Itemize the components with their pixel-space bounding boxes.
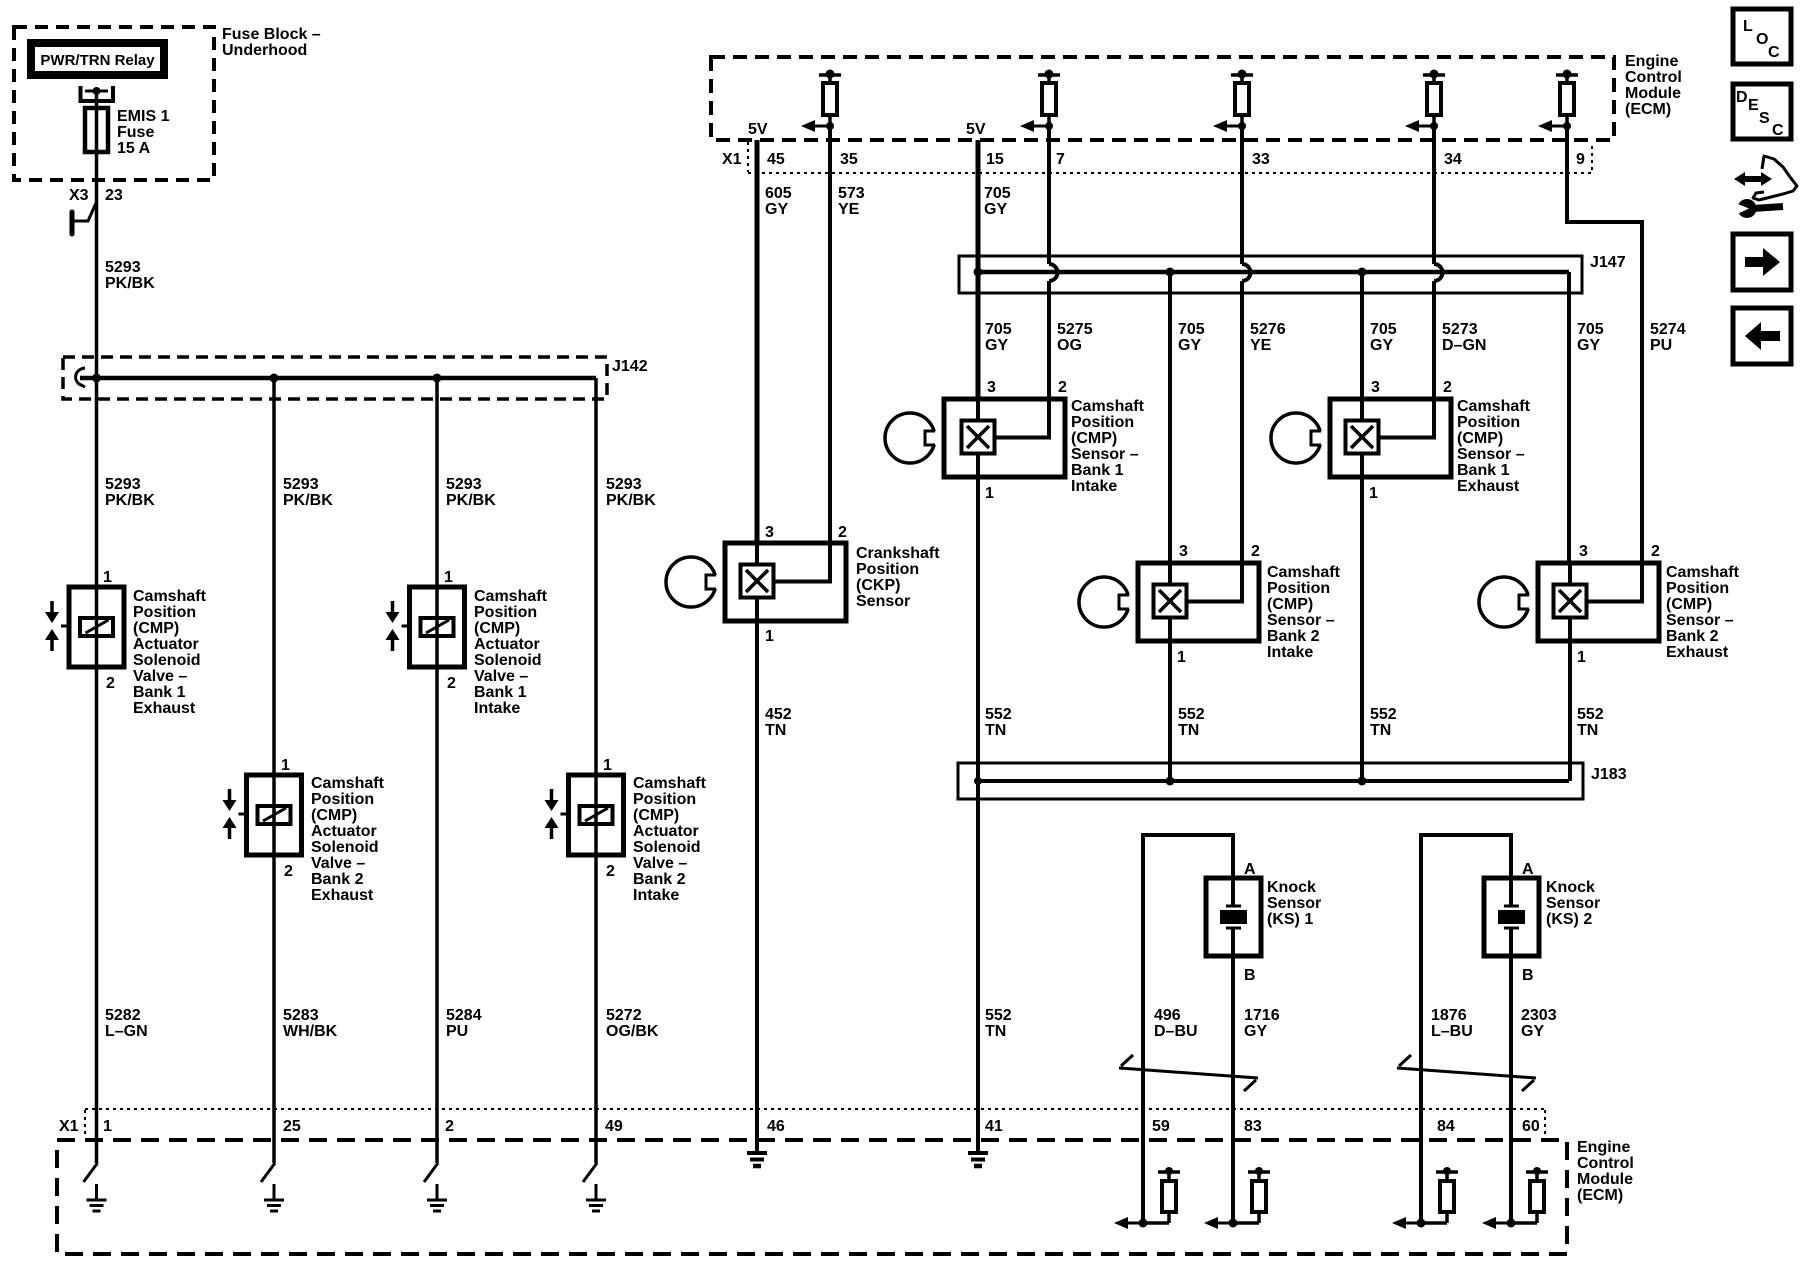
svg-text:YE: YE <box>1250 337 1272 354</box>
label 5293 PK/BK col3 <box>446 476 496 509</box>
svg-text:1: 1 <box>103 1118 112 1135</box>
label 5293 PK/BK col4 <box>606 476 656 509</box>
svg-text:Control: Control <box>1625 69 1682 86</box>
svg-text:2: 2 <box>106 675 115 692</box>
svg-text:Bank 1: Bank 1 <box>474 684 527 701</box>
svg-text:E: E <box>1748 97 1759 114</box>
label 452 TN <box>765 706 792 739</box>
svg-text:J183: J183 <box>1591 766 1627 783</box>
label 573 YE <box>838 185 865 218</box>
svg-text:PK/BK: PK/BK <box>105 492 155 509</box>
junction dot J142 col1 <box>92 374 101 383</box>
label cmp1 text <box>1071 398 1145 495</box>
label sol2 text <box>311 775 385 904</box>
twisted pair KS2 <box>1397 1055 1536 1091</box>
svg-text:TN: TN <box>1370 722 1391 739</box>
resistor ECM pin35 <box>801 70 841 133</box>
icon arrow left box <box>1733 308 1791 364</box>
ground pin41 <box>968 1140 988 1166</box>
relay PWR/TRN <box>31 43 164 75</box>
svg-text:1: 1 <box>444 569 453 586</box>
wire 705 GY branch B1 exhaust <box>1360 272 1364 399</box>
label 705 GY d <box>1577 321 1604 354</box>
label 5282 L-GN <box>105 1007 148 1040</box>
label KS1 text <box>1267 879 1321 928</box>
splice J147 box <box>959 256 1582 293</box>
svg-text:Sensor: Sensor <box>1546 895 1600 912</box>
label 552 TN d <box>1577 706 1604 739</box>
svg-text:5272: 5272 <box>606 1007 642 1024</box>
svg-text:59: 59 <box>1152 1118 1170 1135</box>
svg-text:Solenoid: Solenoid <box>474 652 542 669</box>
svg-text:Valve –: Valve – <box>133 668 187 685</box>
resistor ECM pin34 <box>1405 70 1445 133</box>
resistor ECM pin60 <box>1482 1167 1548 1229</box>
svg-text:552: 552 <box>985 1007 1012 1024</box>
resistor ECM pin84 <box>1392 1167 1458 1229</box>
svg-text:Actuator: Actuator <box>133 636 199 653</box>
label 5284 PU <box>446 1007 482 1040</box>
wire 5293 PK/BK col4 <box>594 378 598 1163</box>
label 5283 WH/BK <box>283 1007 338 1040</box>
svg-text:Sensor –: Sensor – <box>1666 612 1734 629</box>
svg-text:YE: YE <box>838 201 860 218</box>
svg-text:Bank 1: Bank 1 <box>1071 462 1124 479</box>
label ECM bottom <box>1577 1139 1634 1204</box>
svg-text:3: 3 <box>987 379 996 396</box>
sensor CMP bank1 intake <box>885 399 1065 477</box>
knock sensor KS1 <box>1206 878 1261 956</box>
svg-text:Fuse: Fuse <box>117 124 154 141</box>
svg-text:5293: 5293 <box>105 259 141 276</box>
svg-text:(ECM): (ECM) <box>1625 101 1671 118</box>
svg-text:3: 3 <box>1179 543 1188 560</box>
wire clip at X3 <box>72 203 96 234</box>
svg-text:Control: Control <box>1577 1155 1634 1172</box>
svg-text:PK/BK: PK/BK <box>446 492 496 509</box>
svg-text:X3: X3 <box>69 187 89 204</box>
svg-text:41: 41 <box>985 1118 1003 1135</box>
svg-text:TN: TN <box>1178 722 1199 739</box>
svg-text:705: 705 <box>985 321 1012 338</box>
svg-text:452: 452 <box>765 706 792 723</box>
kink wire3 <box>424 1163 438 1182</box>
label CKP text <box>856 545 940 610</box>
svg-text:Knock: Knock <box>1267 879 1316 896</box>
svg-text:605: 605 <box>765 185 792 202</box>
svg-text:Valve –: Valve – <box>474 668 528 685</box>
svg-text:Position: Position <box>474 604 537 621</box>
svg-text:573: 573 <box>838 185 865 202</box>
junction dot J147 left <box>974 268 983 277</box>
svg-text:PWR/TRN Relay: PWR/TRN Relay <box>40 52 155 69</box>
svg-text:46: 46 <box>767 1118 785 1135</box>
wire 2303 GY <box>1509 956 1513 1223</box>
svg-text:5282: 5282 <box>105 1007 141 1024</box>
kink wire2 <box>261 1163 275 1182</box>
svg-text:PK/BK: PK/BK <box>283 492 333 509</box>
label cmp2 text <box>1267 564 1341 661</box>
svg-text:705: 705 <box>984 185 1011 202</box>
svg-text:552: 552 <box>1577 706 1604 723</box>
label 5274 PU <box>1650 321 1686 354</box>
label 605 GY <box>765 185 792 218</box>
svg-text:Valve –: Valve – <box>633 855 687 872</box>
resistor ECM pin9 <box>1538 70 1578 133</box>
svg-text:O: O <box>1756 31 1768 48</box>
J183 bus wire <box>976 779 1569 783</box>
svg-text:Position: Position <box>1457 414 1520 431</box>
icon arrow right box <box>1733 234 1791 290</box>
svg-text:552: 552 <box>1370 706 1397 723</box>
knock sensor 2 loop wire 1876 <box>1421 835 1511 1223</box>
fuse block underhood dashed box <box>14 27 214 180</box>
svg-text:60: 60 <box>1522 1118 1540 1135</box>
svg-text:GY: GY <box>1178 337 1201 354</box>
svg-text:49: 49 <box>605 1118 623 1135</box>
label 705 GY a <box>985 321 1012 354</box>
svg-text:OG: OG <box>1057 337 1082 354</box>
svg-text:Solenoid: Solenoid <box>311 839 379 856</box>
relay output terminal <box>81 86 114 101</box>
svg-text:705: 705 <box>1178 321 1205 338</box>
svg-text:X1: X1 <box>59 1118 79 1135</box>
svg-text:(KS) 1: (KS) 1 <box>1267 911 1313 928</box>
svg-text:5293: 5293 <box>105 476 141 493</box>
svg-text:A: A <box>1244 861 1256 878</box>
svg-text:J147: J147 <box>1590 254 1626 271</box>
svg-text:23: 23 <box>105 187 123 204</box>
svg-text:(CMP): (CMP) <box>474 620 520 637</box>
svg-text:B: B <box>1522 967 1534 984</box>
junction dot J147 mid1 <box>1166 268 1175 277</box>
sensor CMP bank2 intake <box>1079 563 1259 641</box>
label 2303 GY <box>1521 1007 1557 1040</box>
svg-text:35: 35 <box>840 151 858 168</box>
svg-text:705: 705 <box>1370 321 1397 338</box>
wire 5293 PK/BK col2 <box>272 378 276 1163</box>
ground pin1 <box>87 1184 107 1211</box>
svg-text:D–BU: D–BU <box>1154 1023 1198 1040</box>
svg-text:B: B <box>1244 967 1256 984</box>
junction dot J183 mid2 <box>1358 777 1367 786</box>
svg-text:Camshaft: Camshaft <box>1071 398 1145 415</box>
svg-text:Fuse Block –: Fuse Block – <box>222 26 321 43</box>
svg-text:Sensor: Sensor <box>1267 895 1321 912</box>
svg-text:TN: TN <box>985 722 1006 739</box>
svg-text:Position: Position <box>133 604 196 621</box>
svg-text:Module: Module <box>1625 85 1681 102</box>
svg-text:Camshaft: Camshaft <box>474 588 548 605</box>
svg-text:Camshaft: Camshaft <box>1666 564 1740 581</box>
svg-text:Position: Position <box>1267 580 1330 597</box>
label 5272 OG/BK <box>606 1007 659 1040</box>
wire 1716 GY <box>1231 956 1235 1223</box>
wire 552 TN b2 exhaust <box>1568 618 1572 782</box>
svg-text:(KS) 2: (KS) 2 <box>1546 911 1592 928</box>
svg-text:Sensor –: Sensor – <box>1071 446 1139 463</box>
svg-text:5293: 5293 <box>446 476 482 493</box>
label sol1 text <box>133 588 207 717</box>
solenoid CMP actuator bank2 intake <box>545 775 624 855</box>
svg-text:Exhaust: Exhaust <box>1666 644 1729 661</box>
svg-text:GY: GY <box>984 201 1007 218</box>
svg-text:1: 1 <box>103 569 112 586</box>
label 552 TN c <box>1370 706 1397 739</box>
svg-text:1: 1 <box>1369 485 1378 502</box>
svg-text:705: 705 <box>1577 321 1604 338</box>
svg-text:5275: 5275 <box>1057 321 1093 338</box>
svg-text:5293: 5293 <box>606 476 642 493</box>
svg-text:1: 1 <box>985 485 994 502</box>
wire 552 TN b2 intake <box>1168 618 1172 782</box>
junction dot J142 col3 <box>433 374 442 383</box>
svg-text:5276: 5276 <box>1250 321 1286 338</box>
label 5293 PK/BK feed <box>105 259 155 292</box>
svg-text:Sensor –: Sensor – <box>1457 446 1525 463</box>
svg-text:Actuator: Actuator <box>474 636 540 653</box>
sensor CMP bank2 exhaust <box>1479 563 1659 641</box>
svg-text:Crankshaft: Crankshaft <box>856 545 940 562</box>
sensor CKP crankshaft position <box>666 543 846 621</box>
J142 left clip <box>76 368 85 387</box>
svg-text:2: 2 <box>1651 543 1660 560</box>
svg-text:1: 1 <box>281 757 290 774</box>
svg-text:45: 45 <box>767 151 785 168</box>
svg-text:2: 2 <box>1058 379 1067 396</box>
svg-text:Intake: Intake <box>633 887 679 904</box>
wire 5273 D-GN <box>1434 126 1442 399</box>
wire 5276 YE <box>1242 126 1250 563</box>
ground pin2 <box>427 1184 447 1211</box>
svg-text:2: 2 <box>447 675 456 692</box>
connector X1 top row <box>722 142 1592 173</box>
svg-text:Position: Position <box>633 791 696 808</box>
svg-text:1: 1 <box>603 757 612 774</box>
wire 705 GY 5V <box>976 140 981 399</box>
svg-text:GY: GY <box>1370 337 1393 354</box>
svg-text:5274: 5274 <box>1650 321 1686 338</box>
label cmp3 text <box>1457 398 1531 495</box>
ECM bottom dashed box <box>57 1140 1567 1254</box>
wire 552 TN b1 exhaust <box>1360 454 1364 782</box>
svg-text:9: 9 <box>1576 151 1585 168</box>
wire 552 TN b1 intake <box>976 454 980 1153</box>
svg-text:C: C <box>1772 122 1784 139</box>
wire 705 GY branch B2 intake <box>1168 272 1172 563</box>
svg-text:552: 552 <box>985 706 1012 723</box>
svg-text:Camshaft: Camshaft <box>311 775 385 792</box>
label 5273 D-GN <box>1442 321 1486 354</box>
label cmp4 text <box>1666 564 1740 661</box>
junction dot J183 mid1 <box>1166 777 1175 786</box>
svg-text:Solenoid: Solenoid <box>133 652 201 669</box>
svg-text:3: 3 <box>1371 379 1380 396</box>
svg-text:(CMP): (CMP) <box>1071 430 1117 447</box>
resistor ECM pin59 <box>1114 1167 1180 1229</box>
svg-text:1716: 1716 <box>1244 1007 1280 1024</box>
svg-text:3: 3 <box>765 524 774 541</box>
svg-text:(CKP): (CKP) <box>856 577 900 594</box>
svg-text:D: D <box>1736 89 1748 106</box>
label 5276 YE <box>1250 321 1286 354</box>
svg-text:TN: TN <box>765 722 786 739</box>
svg-text:Bank 1: Bank 1 <box>1457 462 1510 479</box>
svg-text:1: 1 <box>765 628 774 645</box>
svg-text:Camshaft: Camshaft <box>633 775 707 792</box>
icon vehicle arrows wrench <box>1734 156 1797 218</box>
label 705 GY c <box>1370 321 1397 354</box>
J147 bus wire <box>978 270 1569 275</box>
J142 bus wire <box>80 376 596 381</box>
svg-text:WH/BK: WH/BK <box>283 1023 338 1040</box>
label 705 GY b <box>1178 321 1205 354</box>
svg-text:2303: 2303 <box>1521 1007 1557 1024</box>
resistor ECM pin7 <box>1020 70 1060 133</box>
label 5275 OG <box>1057 321 1093 354</box>
svg-text:34: 34 <box>1444 151 1462 168</box>
svg-text:Actuator: Actuator <box>311 823 377 840</box>
svg-text:Sensor: Sensor <box>856 593 910 610</box>
svg-text:Sensor –: Sensor – <box>1267 612 1335 629</box>
svg-text:Position: Position <box>311 791 374 808</box>
resistor ECM pin83 <box>1204 1167 1270 1229</box>
svg-text:OG/BK: OG/BK <box>606 1023 659 1040</box>
svg-text:(CMP): (CMP) <box>1666 596 1712 613</box>
svg-text:Bank 2: Bank 2 <box>633 871 686 888</box>
svg-text:(CMP): (CMP) <box>133 620 179 637</box>
svg-text:2: 2 <box>1251 543 1260 560</box>
svg-text:PK/BK: PK/BK <box>105 275 155 292</box>
svg-text:Intake: Intake <box>1071 478 1117 495</box>
svg-text:TN: TN <box>1577 722 1598 739</box>
svg-text:2: 2 <box>445 1118 454 1135</box>
ground pin49 <box>586 1184 606 1211</box>
svg-text:84: 84 <box>1437 1118 1455 1135</box>
svg-text:TN: TN <box>985 1023 1006 1040</box>
svg-text:S: S <box>1759 110 1770 127</box>
svg-text:1876: 1876 <box>1431 1007 1467 1024</box>
wire 5275 OG <box>1049 126 1057 399</box>
svg-text:Camshaft: Camshaft <box>1267 564 1341 581</box>
svg-text:Actuator: Actuator <box>633 823 699 840</box>
svg-text:2: 2 <box>284 863 293 880</box>
svg-text:Knock: Knock <box>1546 879 1595 896</box>
label 552 TN lower <box>985 1007 1012 1040</box>
svg-text:83: 83 <box>1244 1118 1262 1135</box>
wire 5274 PU <box>1567 126 1642 563</box>
knock sensor KS2 <box>1484 878 1539 956</box>
solenoid CMP actuator bank1 intake <box>386 587 465 667</box>
svg-text:Intake: Intake <box>1267 644 1313 661</box>
svg-text:Exhaust: Exhaust <box>1457 478 1520 495</box>
svg-text:5283: 5283 <box>283 1007 319 1024</box>
svg-text:15: 15 <box>986 151 1004 168</box>
ground pin25 <box>264 1184 284 1211</box>
label 1716 GY <box>1244 1007 1280 1040</box>
svg-text:1: 1 <box>1177 649 1186 666</box>
wire 573 YE <box>828 126 832 543</box>
knock sensor 1 loop wire 496 <box>1143 835 1233 1223</box>
wire 5293 PK/BK col3 <box>435 378 439 1163</box>
label 552 TN b <box>1178 706 1205 739</box>
svg-text:Position: Position <box>856 561 919 578</box>
svg-text:GY: GY <box>1521 1023 1544 1040</box>
svg-text:L: L <box>1743 18 1753 35</box>
connector X3 pin 23 <box>69 187 123 204</box>
wire 705 GY branch B2 exhaust <box>1567 272 1571 563</box>
svg-text:5284: 5284 <box>446 1007 482 1024</box>
svg-text:GY: GY <box>765 201 788 218</box>
label Fuse Block Underhood <box>222 26 321 59</box>
svg-text:(CMP): (CMP) <box>633 807 679 824</box>
svg-text:Bank 1: Bank 1 <box>133 684 186 701</box>
label 5293 PK/BK col1 <box>105 476 155 509</box>
label 552 TN a <box>985 706 1012 739</box>
label 705 GY upper <box>984 185 1011 218</box>
ECM top dashed box <box>711 57 1614 140</box>
svg-text:GY: GY <box>1577 337 1600 354</box>
label 496 D-BU <box>1154 1007 1198 1040</box>
svg-text:2: 2 <box>1443 379 1452 396</box>
svg-text:(CMP): (CMP) <box>311 807 357 824</box>
svg-text:33: 33 <box>1252 151 1270 168</box>
svg-text:GY: GY <box>1244 1023 1267 1040</box>
svg-text:552: 552 <box>1178 706 1205 723</box>
wire 605 GY <box>755 140 760 543</box>
svg-text:15 A: 15 A <box>117 140 151 157</box>
svg-text:GY: GY <box>985 337 1008 354</box>
svg-text:(CMP): (CMP) <box>1267 596 1313 613</box>
svg-text:Engine: Engine <box>1577 1139 1630 1156</box>
svg-text:25: 25 <box>283 1118 301 1135</box>
svg-text:Valve –: Valve – <box>311 855 365 872</box>
kink wire4 <box>583 1163 597 1182</box>
label 5293 PK/BK col2 <box>283 476 333 509</box>
svg-text:Solenoid: Solenoid <box>633 839 701 856</box>
svg-text:3: 3 <box>1579 543 1588 560</box>
svg-text:5293: 5293 <box>283 476 319 493</box>
svg-text:Module: Module <box>1577 1171 1633 1188</box>
resistor ECM pin33 <box>1213 70 1253 133</box>
solenoid CMP actuator bank1 exhaust <box>45 587 124 667</box>
icon DESC box <box>1733 84 1791 139</box>
svg-text:Camshaft: Camshaft <box>133 588 207 605</box>
svg-text:7: 7 <box>1056 151 1065 168</box>
wire 5293 PK/BK main feed <box>95 95 99 1163</box>
label sol4 text <box>633 775 707 904</box>
solenoid CMP actuator bank2 exhaust <box>223 775 302 855</box>
junction dot J183 left <box>974 777 982 785</box>
svg-text:EMIS 1: EMIS 1 <box>117 108 170 125</box>
splice J142 dashed box <box>63 357 607 399</box>
svg-text:L–GN: L–GN <box>105 1023 148 1040</box>
svg-text:1: 1 <box>1577 649 1586 666</box>
svg-text:5V: 5V <box>748 121 768 138</box>
svg-text:Exhaust: Exhaust <box>311 887 374 904</box>
svg-text:PK/BK: PK/BK <box>606 492 656 509</box>
svg-text:Underhood: Underhood <box>222 42 307 59</box>
svg-text:2: 2 <box>838 524 847 541</box>
svg-text:Bank 2: Bank 2 <box>311 871 364 888</box>
connector X1 bottom row <box>59 1109 1545 1138</box>
label sol3 text <box>474 588 548 717</box>
svg-text:Exhaust: Exhaust <box>133 700 196 717</box>
svg-text:Bank 2: Bank 2 <box>1666 628 1719 645</box>
svg-text:X1: X1 <box>722 151 742 168</box>
fuse EMIS 1 15 A <box>85 108 170 157</box>
svg-text:Intake: Intake <box>474 700 520 717</box>
